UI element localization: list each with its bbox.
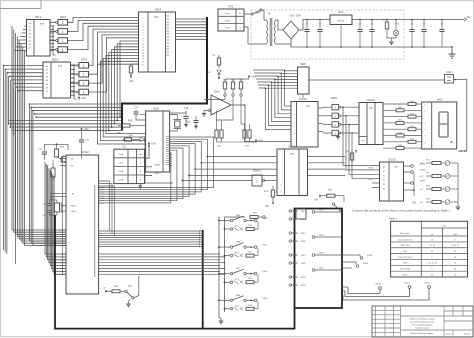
svg-text:D3: D3 [383,180,385,182]
svg-text:+U4: +U4 [419,202,423,204]
svg-text:DD8: DD8 [403,263,407,265]
grounds clock [184,124,188,126]
svg-text:D3: D3 [29,34,31,36]
xtal wires [47,202,53,206]
svg-text:D5: D5 [46,84,48,86]
svg-text:1: 1 [256,180,258,184]
svg-text:TT: TT [40,23,44,27]
panel left-edge pins [289,210,291,212]
K-group rail wires [219,220,230,222]
HG1 right wires [458,83,467,151]
svg-text:D1: D1 [29,27,31,29]
svg-text:VD1 - VD4: VD1 - VD4 [289,15,301,18]
svg-text:XS17: XS17 [300,211,306,213]
op-amp DA2 [211,95,231,115]
svg-text:of the qualifying discipline: of the qualifying discipline [412,324,432,327]
wire R35 down [241,96,245,124]
svg-text:8: 8 [294,133,295,135]
op-amp inputs [204,99,211,101]
svg-text:DD2, DD3: DD2, DD3 [401,245,410,247]
svg-text:XK30: XK30 [375,284,381,286]
svg-text:XS29: XS29 [363,263,369,265]
svg-text:XS15: XS15 [262,271,268,273]
svg-text:d: d [425,123,426,125]
+5V rail op-amp [248,76,250,79]
svg-text:6: 6 [143,33,144,35]
svg-text:7: 7 [294,129,295,131]
svg-text:DD16: DD16 [367,98,375,102]
cap C19b [195,116,197,120]
svg-text:1: 1 [83,91,85,95]
svg-text:~220V: ~220V [224,28,231,30]
title block frame [372,306,473,337]
svg-text:RG: RG [362,141,365,143]
svg-text:+5V: +5V [265,205,270,208]
IC DD13 [277,149,308,196]
svg-text:6: 6 [294,126,295,128]
svg-text:D2: D2 [46,73,48,75]
svg-text:Microchips: Microchips [400,232,410,235]
svg-text:XS21: XS21 [300,255,306,257]
svg-text:DD3: DD3 [81,58,87,62]
wires C17 to DD6 [136,118,146,120]
title block grid [375,306,377,337]
svg-text:XK31: XK31 [404,283,410,285]
svg-text:D7: D7 [46,91,48,93]
DD4 inner pin ticks [167,15,170,17]
svg-text:13: 13 [142,53,144,55]
svg-text:Connect the contacts of the ch: Connect the contacts of the chips to the… [352,209,451,213]
resistors R36 R37 pair1 [216,120,218,130]
svg-text:Conn: Conn [442,226,447,228]
svg-text:4: 4 [143,27,144,29]
svg-text:DD15: DD15 [388,158,396,162]
svg-text:1: 1 [83,82,85,86]
wires DD1 inputs from bus [25,25,27,27]
DD16 sub box RG [359,137,367,145]
output pin XS14 [254,246,257,249]
svg-text:40: 40 [431,251,433,253]
svg-text:+5V: +5V [60,50,65,54]
svg-text:GND: GND [119,171,124,173]
svg-text:D0: D0 [46,66,48,68]
caps C19 C20 plates [47,203,51,205]
ground SB1 [129,300,131,304]
resistors R38 R41 pair2 [244,124,246,130]
wire down from VD [145,140,173,184]
X2 UBXT wire [145,174,153,176]
svg-text:9: 9 [143,41,144,43]
svg-text:ХР07: ХР07 [420,181,426,183]
svg-text:g: g [425,142,426,144]
button SB1 [120,290,125,292]
svg-text:R50: R50 [128,120,133,123]
svg-text:XT1: XT1 [228,5,234,9]
decimal point [450,141,452,143]
svg-text:A1: A1 [72,193,74,196]
svg-text:PIC: PIC [154,15,158,19]
wires DD2 inputs from bus [4,65,44,67]
op-amp output [231,104,245,106]
svg-text:2: 2 [294,110,295,112]
svg-text:Cепь: Cепь [224,13,230,15]
MCU right pins low [99,253,219,255]
MCU left top pins [60,158,66,160]
IC DD4 [139,12,176,72]
display HG1 [422,102,457,149]
DD13 left taps from staircase [207,156,277,158]
ground op-amp [203,111,205,114]
svg-text:1: 1 [83,73,85,77]
svg-text:17: 17 [142,64,144,66]
+5V arrow [461,18,467,21]
svg-text:XS20: XS20 [300,241,306,243]
wires DD3.5-8 outputs up to DD4 [89,29,139,65]
K-group rail wires [219,246,230,248]
svg-text:+5V: +5V [314,199,319,202]
svg-text:DD1: DD1 [35,15,41,19]
PSU ground [451,47,453,54]
svg-text:X2: X2 [122,145,126,149]
far-left bus verticals [3,66,5,251]
svg-text:XS16: XS16 [262,298,268,300]
transistor VT1 [61,156,67,162]
svg-text:3: 3 [294,114,295,116]
IC DD6 [146,111,170,172]
svg-text:2: 2 [143,21,144,23]
svg-text:C18: C18 [184,108,189,110]
svg-text:1: 1 [294,106,295,108]
svg-text:e: e [425,129,426,131]
svg-text:c: c [425,117,426,119]
opto box U3 [296,209,306,219]
svg-text:XS23: XS23 [300,277,306,279]
svg-text:XS13: XS13 [262,218,268,220]
bundle corner verticals down [29,103,31,105]
svg-text:KP142: KP142 [338,21,345,23]
svg-text:+5V: +5V [81,96,86,100]
svg-text:Конт: Конт [138,154,143,156]
svg-text:16: 16 [454,269,456,271]
svg-text:D6: D6 [46,87,48,89]
svg-text:TT: TT [290,152,294,156]
svg-text:DD10: DD10 [299,97,307,101]
svg-text:DA4: DA4 [447,71,452,74]
svg-text:D3: D3 [46,77,48,79]
svg-text:Sheet 1: Sheet 1 [446,333,452,336]
svg-text:UBXT: UBXT [154,173,160,175]
svg-text:+U2: +U2 [419,176,423,178]
svg-text:XS14: XS14 [262,245,268,247]
DD4 lower pin verticals to bundle and DD6 [120,41,139,117]
table 1 [391,221,468,277]
DD6 pin boxes [166,135,170,137]
svg-text:D2: D2 [29,30,31,32]
svg-text:+U1: +U1 [419,163,423,165]
MCU left port pins P1 [60,229,66,231]
IC DD16 [359,103,383,145]
svg-text:D0: D0 [29,23,31,25]
svg-text:D5: D5 [29,41,31,43]
svg-text:XS31: XS31 [318,268,324,270]
svg-text:4: 4 [294,118,295,120]
svg-text:RSTQ: RSTQ [368,168,374,170]
svg-text:a: a [425,104,426,106]
svg-text:D2: D2 [383,175,385,177]
svg-text:10: 10 [142,44,144,46]
svg-text:14: 14 [431,239,433,241]
panel inner pins [312,211,315,214]
svg-text:12: 12 [454,274,456,276]
svg-text:DD9, DD10: DD9, DD10 [400,269,410,271]
svg-text:2, 5, 14: 2, 5, 14 [429,245,435,247]
svg-text:DD14.1: DD14.1 [253,170,262,173]
output pin XS13 [254,219,257,222]
svg-text:XS22: XS22 [300,263,306,265]
svg-text:XTAL1: XTAL1 [71,210,76,213]
panel outline thick bus top [122,17,207,131]
svg-text:D7: D7 [29,48,31,50]
bridge VD1-VD4 [283,21,299,39]
svg-text:DD9: DD9 [331,96,337,100]
X2 GNDM wire [145,166,153,168]
DD4 right pins to bus [176,18,208,20]
svg-text:+5V: +5V [466,15,471,19]
bridge wires [276,20,284,30]
svg-text:DD12: DD12 [403,274,408,276]
svg-text:1, 10, 11: 1, 10, 11 [451,245,458,247]
panel stubs to XK [342,286,348,288]
MCU DD12 [66,155,99,294]
svg-text:+5V: +5V [258,139,263,143]
connector XT1 [218,9,244,31]
batch2 feed verticals [45,162,66,254]
svg-text:3: 3 [143,24,144,26]
register DD1 [27,20,51,57]
svg-text:h: h [425,148,426,150]
+5V under DD4 [130,75,132,76]
stubs XS28 XS29 [342,255,360,257]
svg-text:GND: GND [453,234,458,236]
DD1 output pins with dots [50,25,53,27]
svg-text:DD12: DD12 [81,150,89,154]
PSU dashed box [251,10,404,59]
DD16 to resistors R39-R46 [383,103,408,105]
svg-text:7: 7 [143,35,144,37]
resistor R31 [131,64,139,66]
DD8 output long wire [308,79,310,81]
svg-text:14: 14 [142,56,144,58]
IC DD15 [380,162,404,201]
svg-text:14: 14 [454,257,456,259]
bus bundle horizontals [30,103,123,105]
svg-text:Electrical schematic diagram: Electrical schematic diagram [411,332,434,335]
DD10 right pins [318,107,323,109]
svg-text:DD1, DD4, DD13: DD1, DD4, DD13 [398,239,413,241]
svg-text:+5V: +5V [412,202,417,205]
svg-text:12: 12 [142,50,144,52]
svg-text:~220V: ~220V [224,20,231,22]
K-group rail wires [219,299,230,301]
svg-text:5: 5 [294,122,295,124]
svg-text:XTAL2: XTAL2 [71,205,76,208]
svg-text:BQ1: BQ1 [186,122,191,124]
svg-text:for performing laboratory work: for performing laboratory work [410,321,434,324]
crystal BQ1 [174,119,182,121]
svg-text:+5V: +5V [83,127,88,131]
DD2 right pin dots [71,64,75,66]
svg-text:+U3: +U3 [419,189,423,191]
svg-text:Computer circuits: Computer circuits [415,327,429,330]
svg-text:TT: TT [394,165,398,169]
svg-text:9: 9 [431,269,432,271]
wire R33 to input [211,96,225,99]
svg-text:DD6, DD7, DD15: DD6, DD7, DD15 [398,257,413,259]
svg-text:1: 1 [83,64,85,68]
MCU right pins to staircase [99,187,104,189]
svg-text:16: 16 [142,62,144,64]
panel outline thick main [55,209,342,329]
segments 8 [439,112,448,137]
svg-text:XK32: XK32 [424,283,430,285]
IC DD10 [291,102,318,148]
svg-text:ХР06: ХР06 [420,170,426,172]
DD9 outputs to DD16 and DD15 [341,106,359,108]
DD8 bottom pin [302,94,304,98]
DD1 input verticals to MCU P1 [12,26,66,230]
svg-text:DD6: DD6 [153,107,159,111]
svg-text:HG1: HG1 [437,98,443,102]
svg-text:D1: D1 [46,69,48,71]
DD15 right pins [404,165,411,167]
opto DA4 [445,75,454,84]
+5V pullup DD2 [78,97,80,100]
thick bus divider [202,230,204,329]
gnd LED [391,38,393,41]
svg-text:DD2: DD2 [52,58,58,62]
svg-text:8: 8 [143,38,144,40]
DD8 input stubs [285,70,298,72]
svg-text:7: 7 [431,257,432,259]
register DD2 [43,62,71,98]
svg-text:1: 1 [62,21,64,25]
inner frame corner top-left [0,0,41,9]
svg-text:20: 20 [454,251,456,253]
X2 +5V wire [145,146,150,158]
svg-text:XS26: XS26 [318,235,324,237]
MCU left port pins P0 [60,253,66,255]
svg-text:DC: DC [369,107,373,110]
svg-text:D1: D1 [383,171,385,173]
ground DD9 enable [337,133,339,136]
X2 gnd wire [139,184,141,186]
svg-text:+5V: +5V [129,79,134,83]
svg-text:7, 10, 21, 28: 7, 10, 21, 28 [427,263,438,265]
svg-text:19: 19 [454,263,456,265]
svg-text:DA2: DA2 [214,90,220,94]
svg-text:XS30: XS30 [318,253,324,255]
connector X2 table [114,149,145,183]
svg-text:24: 24 [431,274,433,276]
K-group rail wires [219,273,230,275]
svg-text:b: b [425,110,426,112]
DD15 extra left wires [372,182,380,184]
svg-text:11: 11 [142,47,144,49]
svg-text:15: 15 [142,59,144,61]
svg-text:5: 5 [143,30,144,32]
DD13 right outputs [308,156,346,158]
MCU pin cell columns [62,157,64,275]
svg-text:D4: D4 [46,80,48,82]
svg-text:Table 1: Table 1 [389,218,398,221]
svg-text:GNDM: GNDM [154,165,160,167]
svg-text:DD3: DD3 [60,15,66,19]
nested corners right of MCU [99,181,110,231]
svg-text:D6: D6 [29,44,31,46]
IC DD8 [298,67,310,94]
node wire above VT1 [45,144,69,151]
diode VD [140,137,145,142]
+5V lower rail [255,140,257,143]
staircase bus DD6 to MCU [99,137,214,188]
svg-text:D4: D4 [29,37,31,39]
svg-text:+5V: +5V [151,142,156,146]
MCU extra left pins [50,193,66,195]
svg-text:Cепь: Cепь [118,154,124,156]
wires DD3.1-4 outputs to DD4 [68,18,139,23]
svg-text:DA1: DA1 [338,10,344,14]
svg-text:1: 1 [143,18,144,20]
wires crystal [170,115,178,120]
svg-text:D5: D5 [383,189,385,191]
switch SA3 [332,203,334,205]
svg-text:Кт: Кт [239,13,241,15]
K-section rails [218,217,220,318]
extra DD6 pins [170,154,172,156]
svg-text:DD5: DD5 [403,251,407,253]
wire R34 down [217,96,234,120]
output pin XS15 [254,272,257,275]
input nest to DD8 and DD10 [253,70,291,106]
svg-text:CD: CD [306,105,310,108]
MCU right pins mid to bus [99,230,202,232]
svg-text:+5V: +5V [117,133,122,135]
svg-text:XS19: XS19 [300,233,306,235]
output pin XS16 [254,299,257,302]
op-amp wire to DD10 [245,105,291,142]
svg-text:C17: C17 [134,107,139,110]
+5V pullup DD1 [57,51,59,54]
svg-text:DD13: DD13 [288,145,296,149]
svg-text:+5V: +5V [119,162,123,164]
svg-text:+5V: +5V [251,75,256,79]
svg-text:GND: GND [119,180,124,182]
svg-text:XS24: XS24 [300,285,306,287]
svg-text:1: 1 [62,30,64,34]
svg-text:Hardware and software complex: Hardware and software complex [409,318,435,321]
svg-text:7: 7 [454,239,455,241]
svg-text:D4: D4 [383,184,385,186]
svg-text:DD8: DD8 [300,62,306,66]
svg-text:RSTQ: RSTQ [368,179,374,181]
svg-text:D0: D0 [383,167,385,169]
svg-text:Sheets 1: Sheets 1 [464,333,471,336]
svg-text:XS28: XS28 [367,255,373,257]
regulator DA1 [330,15,352,25]
svg-text:XS25: XS25 [318,210,324,212]
svg-text:1: 1 [62,39,64,43]
svg-text:DD4: DD4 [155,8,161,12]
